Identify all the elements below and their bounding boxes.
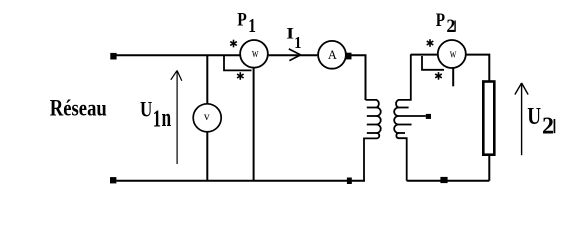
- wire: P2 to load resistor: [467, 55, 490, 81]
- arrow I1: [289, 49, 301, 61]
- svg-text:P: P: [237, 8, 247, 30]
- svg-text:I: I: [286, 25, 294, 42]
- svg-text:U: U: [527, 102, 541, 130]
- wattmeter P2: [438, 40, 466, 68]
- asterisk P2 current coil: [427, 39, 434, 47]
- wire: P2 voltage stub: [452, 69, 454, 87]
- node: secondary polarity terminal: [426, 114, 431, 119]
- svg-text:Réseau: Réseau: [50, 96, 107, 122]
- label P2: [436, 10, 456, 36]
- wire: bottom secondary bus: [407, 180, 490, 182]
- svg-text:U: U: [140, 97, 152, 122]
- svg-text:2: 2: [446, 16, 455, 36]
- wire: P1 to ammeter: [269, 54, 318, 56]
- wire: voltmeter branch lower: [206, 132, 208, 180]
- wire: ammeter to transformer primary: [351, 55, 366, 100]
- wire: P1 voltage tap: [224, 56, 252, 70]
- svg-text:2: 2: [542, 113, 554, 139]
- wire: P1 to bottom bus: [253, 68, 255, 181]
- svg-text:A: A: [328, 48, 337, 62]
- node: primary bottom junction: [347, 178, 352, 185]
- label I1: [286, 25, 301, 53]
- svg-text:w: w: [450, 47, 457, 60]
- wire: top primary bus: [117, 54, 240, 56]
- transformer secondary winding L2: [394, 54, 411, 181]
- svg-text:1: 1: [248, 14, 256, 37]
- asterisk P2 voltage coil: [435, 72, 442, 80]
- node: bottom-left supply terminal: [110, 177, 116, 183]
- wire: voltmeter branch upper: [206, 55, 208, 104]
- ammeter A: [318, 41, 346, 69]
- voltmeter V: [193, 104, 221, 132]
- svg-text:P: P: [436, 10, 445, 31]
- node: secondary bottom junction: [440, 177, 447, 183]
- svg-text:w: w: [252, 47, 259, 60]
- wattmeter P1: [240, 40, 268, 68]
- wire: secondary tap lead: [397, 115, 426, 117]
- label U2: [527, 102, 555, 140]
- transformer primary winding L1: [364, 100, 381, 181]
- node: ammeter output junction: [346, 53, 352, 60]
- arrow U2: [515, 83, 528, 155]
- svg-text:1: 1: [153, 104, 161, 132]
- asterisk P1 voltage coil: [237, 72, 244, 80]
- node: top-left supply terminal: [110, 53, 116, 60]
- wire: bottom primary bus: [117, 180, 366, 182]
- resistor load R: [483, 82, 494, 155]
- svg-text:1: 1: [294, 34, 301, 52]
- svg-text:v: v: [204, 111, 210, 123]
- arrow U1n: [171, 71, 182, 165]
- svg-text:n: n: [162, 102, 172, 132]
- label U1n: [140, 97, 171, 132]
- label P1: [237, 8, 256, 37]
- wire: P2 voltage tap: [422, 56, 444, 70]
- wire: L2 to P2: [411, 54, 437, 56]
- asterisk P1 current coil: [230, 40, 237, 48]
- wire: load resistor to bottom bus: [488, 156, 490, 181]
